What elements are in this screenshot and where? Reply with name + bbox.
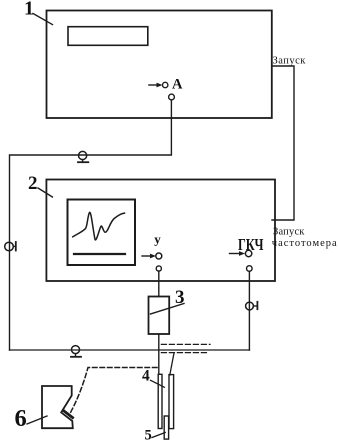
electrode strip (block 5): [164, 416, 168, 439]
quartz plate right (block 4): [169, 375, 174, 429]
label 4: [142, 368, 164, 388]
label 5: [145, 427, 166, 443]
dashed lead wire upper: [161, 343, 210, 345]
dashed lead wire lower: [161, 352, 209, 354]
svg-text:5: 5: [145, 427, 152, 443]
terminal U arrow: [142, 254, 156, 259]
quartz plate left (block 4): [158, 374, 162, 428]
waveform on screen: [73, 212, 125, 240]
display window of block 1: [68, 27, 148, 46]
connector circle below U: [156, 266, 161, 271]
screen of block 2: [68, 200, 136, 266]
block 1 (generator) outline: [47, 11, 272, 119]
connector X4 on bottom bus: [71, 346, 81, 357]
terminal A circle: [163, 82, 168, 87]
terminal U circle: [156, 253, 162, 259]
terminal GKCh arrow: [230, 251, 246, 256]
svg-text:6: 6: [15, 405, 27, 432]
wire Zapusk from block 1 to block 2 right side: [272, 66, 294, 220]
label 6: [15, 405, 48, 432]
connector circle below A: [169, 94, 175, 100]
wire from A down and left to left bus: [10, 100, 172, 350]
svg-text:Запуск: Запуск: [273, 55, 307, 66]
label 2: [28, 173, 52, 197]
svg-text:1: 1: [24, 0, 34, 19]
svg-text:2: 2: [28, 173, 38, 194]
arrowhead at block 6: [64, 411, 73, 418]
connector X1 on horizontal wire: [78, 151, 88, 162]
terminal GKCh circle: [245, 250, 251, 256]
wire from U connector down to block 3: [158, 271, 160, 296]
label 1: [24, 0, 53, 25]
wire from GKCh connector down to bottom bus: [248, 271, 250, 350]
bottom bus wire: [10, 349, 250, 351]
connector X3 on GKCh wire: [246, 302, 258, 310]
label Zapusk chastotomera: [272, 227, 338, 250]
acoustic dashed path from transducer to block 6: [71, 368, 158, 413]
block 3 (amplifier) outline: [149, 297, 170, 335]
svg-text:у: у: [154, 231, 161, 246]
connector circle below GKCh: [247, 266, 253, 272]
terminal A arrow: [149, 83, 163, 88]
svg-text:частотомера: частотомера: [272, 238, 338, 249]
svg-text:А: А: [172, 76, 183, 92]
lead line to right plate: [170, 353, 174, 375]
wire from block 3 down to transducer: [158, 334, 160, 374]
label 3: [151, 287, 185, 314]
connector X2 on left vertical wire: [5, 242, 16, 251]
baseline on screen: [74, 253, 125, 255]
block 2 (oscilloscope) outline: [46, 180, 275, 282]
block 6 (sound source) outline: [42, 386, 73, 428]
svg-text:4: 4: [142, 368, 150, 385]
svg-text:Запуск: Запуск: [273, 227, 305, 238]
